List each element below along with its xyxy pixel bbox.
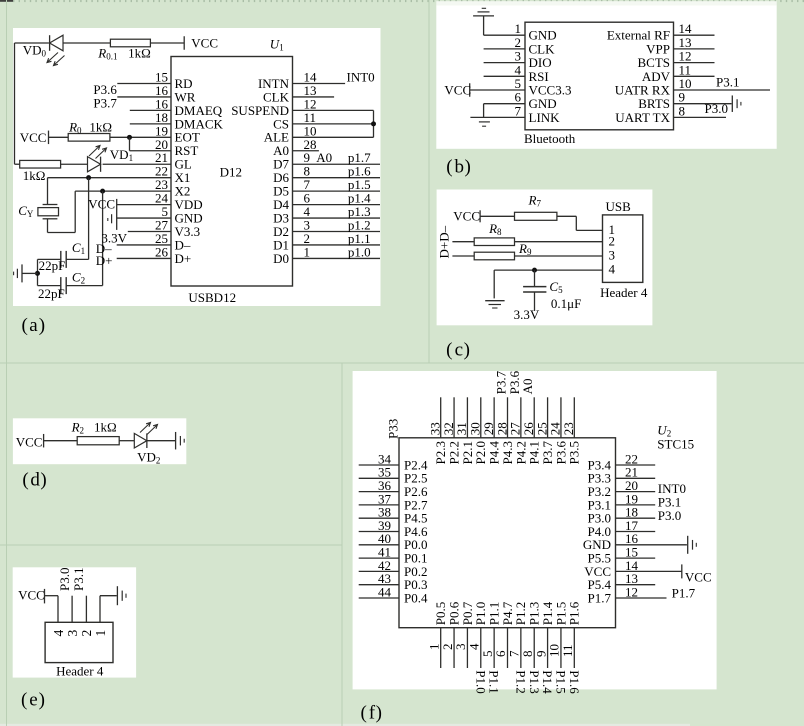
VCC terminal bar panel d	[43, 434, 45, 448]
wire pin4 corner down to ground	[493, 270, 495, 298]
wire C1 left	[38, 258, 61, 260]
svg-text:4: 4	[466, 643, 481, 650]
wire left pin 35	[359, 477, 399, 479]
header USB body	[603, 215, 643, 283]
panel (a) background	[13, 28, 381, 306]
wire X1 corner down to crystal	[47, 178, 49, 205]
wire top pin 24	[560, 397, 562, 438]
grid line left of panel f column	[341, 363, 343, 726]
wire VD1 to pin21 GL	[103, 163, 171, 165]
svg-text:P1.6: P1.6	[567, 601, 582, 625]
wire VD0 anode from left wall	[15, 42, 49, 44]
svg-text:P1.6: P1.6	[567, 670, 582, 694]
wire pin3 D2 to p1.2	[293, 231, 381, 233]
wire pin11 CS	[293, 123, 374, 125]
capacitor C2 right plate	[65, 277, 67, 294]
wire pin8 UART TX	[674, 116, 727, 118]
junction node R0/EOT/RST	[127, 135, 132, 140]
wire left pin 40	[359, 544, 399, 546]
VCC terminal bar panel f	[681, 564, 683, 578]
wire top pin 28	[507, 397, 509, 438]
wire pin1 vertical	[99, 596, 101, 623]
wire pin6 GND	[484, 103, 525, 105]
resistor 1kohm left	[20, 160, 61, 168]
svg-text:P1.2: P1.2	[513, 670, 528, 693]
svg-text:12: 12	[625, 584, 638, 599]
header 4 body panel e	[45, 622, 113, 662]
VCC terminal bar panel c	[479, 210, 481, 222]
wire pin25 D-	[117, 244, 171, 246]
svg-text:b: b	[455, 156, 465, 177]
wire crystal bottom down	[47, 219, 49, 233]
VCC terminal bar for R0	[48, 131, 50, 145]
wire pin7 D5 to p1.5	[293, 190, 381, 192]
wire R8 to USB pin2	[515, 241, 603, 243]
wire pin4 vertical	[57, 596, 59, 623]
svg-text:): )	[39, 690, 45, 711]
wire left pin 43	[359, 584, 399, 586]
led VD2 emission arrows	[140, 423, 151, 433]
wire pin10 UATR RX to P3.1	[674, 89, 771, 91]
junction node X2/C2	[100, 189, 105, 194]
wire left pin 44	[359, 597, 399, 599]
svg-text:VCC: VCC	[191, 35, 218, 50]
wire bottom pin 7	[520, 628, 522, 668]
wire left pin 38	[359, 517, 399, 519]
wire pin10 ALE	[293, 136, 374, 138]
wire R7 right	[557, 215, 576, 217]
panel (e) background	[13, 567, 136, 677]
svg-text:a: a	[29, 315, 38, 336]
ground symbol panel e	[116, 586, 118, 605]
wire top pin 30	[480, 397, 482, 438]
svg-text:P3.0: P3.0	[705, 101, 728, 116]
svg-text:D+: D+	[96, 253, 113, 268]
wire pin2 vertical	[85, 596, 87, 623]
wire bottom pin 8	[533, 628, 535, 668]
wire bottom pin 11	[573, 628, 575, 668]
grid line between panel a and b/c columns	[428, 0, 430, 363]
wire bottom pin 5	[493, 628, 495, 668]
svg-text:A0: A0	[316, 150, 332, 165]
wire top pin 31	[466, 397, 468, 438]
wire D- to R9	[452, 255, 474, 257]
panel (f) background	[353, 371, 717, 689]
wire pin5 GND	[117, 217, 171, 219]
capacitor C5 top plate	[523, 286, 546, 288]
wire right pin 22 stub	[616, 464, 656, 466]
svg-text:1: 1	[304, 244, 311, 259]
svg-text:D0: D0	[273, 251, 289, 266]
svg-text:(: (	[21, 690, 27, 711]
svg-text:D12: D12	[220, 165, 242, 180]
wire top pin 32	[453, 397, 455, 438]
wire R0.1 to VCC	[150, 42, 184, 44]
svg-text:VCC: VCC	[453, 209, 480, 224]
wire pin5 VCC3.3	[470, 89, 525, 91]
svg-text:3: 3	[609, 248, 616, 263]
crystal CY bottom plate	[43, 218, 58, 220]
wire up to X2 row	[74, 191, 76, 232]
wire pin15 RD stub	[117, 83, 171, 85]
wire pin12 SUSPEND	[293, 109, 374, 111]
ground marks at pin5 GND	[111, 214, 113, 223]
wire pin14 External RF	[674, 34, 715, 36]
svg-text:1kΩ: 1kΩ	[94, 420, 117, 435]
svg-text:D+: D+	[175, 251, 192, 266]
svg-text:STC15: STC15	[657, 437, 694, 452]
svg-text:P3.1: P3.1	[716, 75, 739, 90]
wire X1 node down to C1	[88, 178, 90, 260]
svg-text:): )	[39, 315, 45, 336]
wire pin2 CLK	[484, 48, 525, 50]
VCC terminal bar top	[183, 36, 185, 50]
svg-text:Bluetooth: Bluetooth	[524, 131, 576, 146]
wire top pin 29	[493, 397, 495, 438]
svg-text:P1.4: P1.4	[540, 670, 555, 694]
wire top pin 23	[573, 397, 575, 438]
resistor R7	[515, 212, 557, 220]
chip U1 USBD12 body	[171, 57, 293, 287]
ground symbol right panel b	[731, 95, 733, 112]
wire left pin 41	[359, 557, 399, 559]
svg-text:P33: P33	[386, 419, 401, 439]
svg-text:e: e	[29, 690, 37, 711]
wire pin1 to ground	[100, 595, 117, 597]
capacitor C2 left plate	[60, 277, 62, 294]
svg-text:VCC: VCC	[18, 588, 45, 603]
svg-text:): )	[464, 339, 470, 360]
svg-text:0.1μF: 0.1μF	[551, 296, 581, 311]
horizontal grid line between d and e	[0, 544, 342, 546]
ground symbol bottom-left	[21, 264, 23, 282]
wire joining C1 and C2 left plates	[37, 259, 39, 285]
wire bottom pin 2	[453, 628, 455, 668]
wire pin8 D6 to p1.6	[293, 177, 381, 179]
svg-text:A0: A0	[520, 379, 535, 395]
left margin grid line	[6, 0, 8, 726]
svg-text:UART TX: UART TX	[615, 110, 670, 125]
wire node down to RST row	[129, 137, 131, 150]
svg-text:P1.0: P1.0	[473, 670, 488, 693]
svg-text:3.3V: 3.3V	[514, 307, 540, 322]
wire R0 to pin19 EOT	[110, 136, 171, 138]
svg-text:(: (	[361, 703, 367, 724]
VCC terminal bar panel b	[469, 83, 471, 97]
wire pin1 D0 to p1.0	[293, 257, 381, 259]
wire ground stem to pin1	[483, 16, 485, 35]
wire pin18 DMACK stub	[130, 123, 171, 125]
wire pin24 VDD	[117, 204, 171, 206]
svg-text:(: (	[22, 315, 28, 336]
wire C5 to 3.3V	[534, 292, 536, 311]
svg-text:1kΩ: 1kΩ	[128, 46, 151, 61]
svg-text:P1.7: P1.7	[588, 590, 612, 605]
svg-text:P3.1: P3.1	[71, 568, 86, 591]
svg-text:P3.0: P3.0	[57, 568, 72, 591]
capacitor C5 bottom plate	[523, 291, 546, 293]
svg-text:1kΩ: 1kΩ	[89, 120, 112, 135]
wire top pin 33	[440, 397, 442, 438]
wire bottom pin 10	[560, 628, 562, 668]
wire left pin 36	[359, 491, 399, 493]
wire pin2 D1 to p1.1	[293, 244, 381, 246]
svg-text:1: 1	[93, 630, 108, 637]
junction node CS	[371, 121, 376, 126]
wire pin14 INTN to INT0	[293, 83, 346, 85]
wire R9 to USB pin3	[515, 255, 603, 257]
wire right pin 13 stub	[616, 584, 656, 586]
wire D+ to R8	[452, 241, 474, 243]
wire left pin 39	[359, 531, 399, 533]
wire pin16 GND to ground	[616, 544, 687, 546]
VCC terminal bar panel e	[44, 589, 46, 604]
svg-text:P1.5: P1.5	[554, 670, 569, 693]
wire pin20 to INT0	[616, 491, 656, 493]
svg-text:(: (	[22, 470, 28, 491]
svg-text:VCC: VCC	[16, 435, 43, 450]
svg-text:VCC: VCC	[444, 83, 471, 98]
svg-text:P3.0: P3.0	[658, 508, 681, 523]
wire left pin 34	[359, 464, 399, 466]
wire left pin 37	[359, 504, 399, 506]
svg-text:LINK: LINK	[529, 110, 561, 125]
svg-text:): )	[40, 470, 46, 491]
wire VCC to R0	[49, 136, 69, 138]
svg-text:8: 8	[679, 103, 686, 118]
wire pin28 A0 stub	[293, 150, 319, 152]
wire USB pin4 left	[494, 269, 602, 271]
wire pin12 BCTS	[674, 62, 715, 64]
svg-text:Header 4: Header 4	[600, 285, 648, 300]
wire pin14 VCC	[616, 570, 682, 572]
wire left pin 42	[359, 570, 399, 572]
ground symbol panel c	[485, 300, 504, 302]
wire pin4 D3 to p1.3	[293, 217, 381, 219]
wire VCC to R2	[44, 440, 78, 442]
wire VD0 to R0.1	[63, 42, 111, 44]
svg-text:VCC: VCC	[88, 197, 115, 212]
resistor R0.1	[110, 39, 150, 47]
chip Bluetooth body	[525, 22, 674, 130]
svg-text:23: 23	[561, 422, 576, 435]
wire bottom pin 9	[547, 628, 549, 668]
wire pin3 DIO	[484, 62, 525, 64]
panel (c) background	[437, 190, 653, 326]
wire top pin 26	[533, 397, 535, 438]
led VD0 emission arrows	[47, 53, 58, 63]
capacitor C1 left plate	[60, 251, 62, 268]
wire node to ground	[22, 272, 38, 274]
svg-text:7: 7	[515, 103, 522, 118]
junction node ground caps	[35, 271, 40, 276]
wire pin16 WR from P3.6	[117, 96, 171, 98]
led VD1 emission arrows	[89, 146, 100, 157]
wire right pin 17 stub	[616, 531, 656, 533]
left wall wire from VD0 down to 1kohm resistor	[14, 43, 16, 164]
svg-text:c: c	[455, 339, 463, 360]
svg-text:): )	[465, 156, 471, 177]
wire node down to C5	[534, 270, 536, 287]
svg-text:26: 26	[155, 244, 169, 259]
white strip above panel b	[436, 1, 776, 6]
horizontal grid line across middle	[0, 362, 804, 364]
wire bottom pin 4	[480, 628, 482, 668]
svg-text:(: (	[446, 339, 452, 360]
wire pin20 RST	[130, 150, 172, 152]
chip U2 STC15 body	[399, 438, 616, 628]
svg-text:INT0: INT0	[347, 70, 375, 85]
svg-text:(: (	[446, 156, 452, 177]
svg-text:d: d	[30, 470, 40, 491]
wire top pin 25	[547, 397, 549, 438]
wire VCC to pin4	[45, 595, 59, 597]
svg-text:3: 3	[65, 630, 80, 637]
wire pin9 D7 to p1.7	[293, 163, 381, 165]
wire pin27 V3.3	[128, 231, 171, 233]
wire VD2 to ground	[147, 440, 175, 442]
ground symbol panel d	[175, 432, 177, 450]
svg-text:4: 4	[51, 630, 66, 637]
led VD1	[88, 157, 101, 172]
wire pin12 to P1.7	[616, 597, 667, 599]
wire X2 node down to C2	[102, 191, 104, 285]
led VD2	[134, 433, 147, 448]
wire pin6 D4 to p1.4	[293, 204, 381, 206]
wire wall to 1kohm resistor	[15, 163, 20, 165]
wire pin3 vertical	[71, 596, 73, 623]
svg-text:VCC: VCC	[20, 130, 47, 145]
led VD0	[50, 35, 63, 51]
svg-text:P1.7: P1.7	[672, 585, 696, 600]
junction node pin4/C5	[532, 268, 537, 273]
panel (b) background	[436, 6, 776, 149]
wire right pin 21 stub	[616, 477, 656, 479]
svg-text:D+D–: D+D–	[437, 225, 452, 258]
wire VCC to R7	[480, 215, 514, 217]
wire crystal bottom right	[48, 232, 76, 234]
wire pin19 to P3.1	[616, 504, 656, 506]
wire pin16 DMAEQ from P3.7	[130, 109, 171, 111]
wire pin11 ADV	[674, 75, 715, 77]
wire pin6 down to ground	[483, 104, 485, 118]
svg-text:): )	[376, 703, 382, 724]
ground symbol top of Bluetooth	[473, 15, 494, 17]
VCC terminal bar mid for VDD and GND	[116, 199, 118, 230]
wire bottom pin 1	[440, 628, 442, 668]
wire vertical joining SUSPEND CS ALE	[373, 110, 375, 137]
panel (d) background	[13, 418, 186, 464]
wire top pin 27	[520, 397, 522, 438]
wire pin4 RSI	[484, 75, 525, 77]
wire bottom pin 3	[466, 628, 468, 668]
crystal CY top plate	[43, 204, 58, 206]
svg-text:p1.0: p1.0	[348, 244, 371, 259]
svg-text:P1.3: P1.3	[527, 670, 542, 693]
ground symbol below pin7 wire	[479, 121, 490, 123]
capacitor C1 right plate	[65, 251, 67, 268]
crystal CY body	[38, 208, 59, 216]
wire pin26 D+	[117, 257, 171, 259]
wire R2 to VD2	[119, 440, 134, 442]
svg-text:USBD12: USBD12	[188, 290, 236, 305]
svg-text:11: 11	[560, 644, 575, 657]
wire right pin 15 stub	[616, 557, 656, 559]
wire into USB pin1	[576, 229, 602, 231]
wire C2 right to X2 branch	[66, 285, 102, 287]
resistor R2	[77, 437, 119, 445]
svg-text:4: 4	[609, 262, 616, 277]
wire pin7 LINK	[470, 116, 525, 118]
wire pin13 CLK stub	[293, 96, 335, 98]
svg-text:Header 4: Header 4	[56, 663, 104, 678]
svg-text:USB: USB	[606, 199, 632, 214]
wire pin18 to P3.0	[616, 517, 656, 519]
wire C2 left	[38, 285, 61, 287]
svg-text:P3.7: P3.7	[93, 95, 117, 110]
wire pin23 X2	[75, 190, 171, 192]
top border tick row	[0, 0, 804, 2]
wire pin1 GND	[484, 34, 525, 36]
svg-text:P0.4: P0.4	[404, 590, 428, 605]
wire C1 right to X1 branch	[66, 258, 88, 260]
junction node X1/C1	[86, 175, 91, 180]
svg-text:P1.1: P1.1	[487, 670, 502, 693]
wire pin13 VPP	[674, 48, 715, 50]
resistor R9	[474, 252, 514, 260]
svg-text:44: 44	[378, 584, 392, 599]
resistor R8	[474, 238, 514, 246]
bottom light strip	[0, 724, 690, 726]
svg-text:VCC: VCC	[685, 570, 712, 585]
svg-text:22pF: 22pF	[38, 286, 65, 301]
svg-text:P3.5: P3.5	[567, 441, 582, 464]
svg-text:1kΩ: 1kΩ	[23, 168, 46, 183]
wire 1kohm to VD1	[61, 163, 88, 165]
wire pin9 BRTS to ground	[674, 103, 732, 105]
wire R7 corner down	[575, 216, 577, 230]
wire bottom pin 6	[507, 628, 509, 668]
svg-text:2: 2	[609, 233, 616, 248]
resistor R0	[68, 134, 110, 142]
ground symbol panel f	[687, 536, 689, 554]
wire pin22 X1	[48, 177, 172, 179]
